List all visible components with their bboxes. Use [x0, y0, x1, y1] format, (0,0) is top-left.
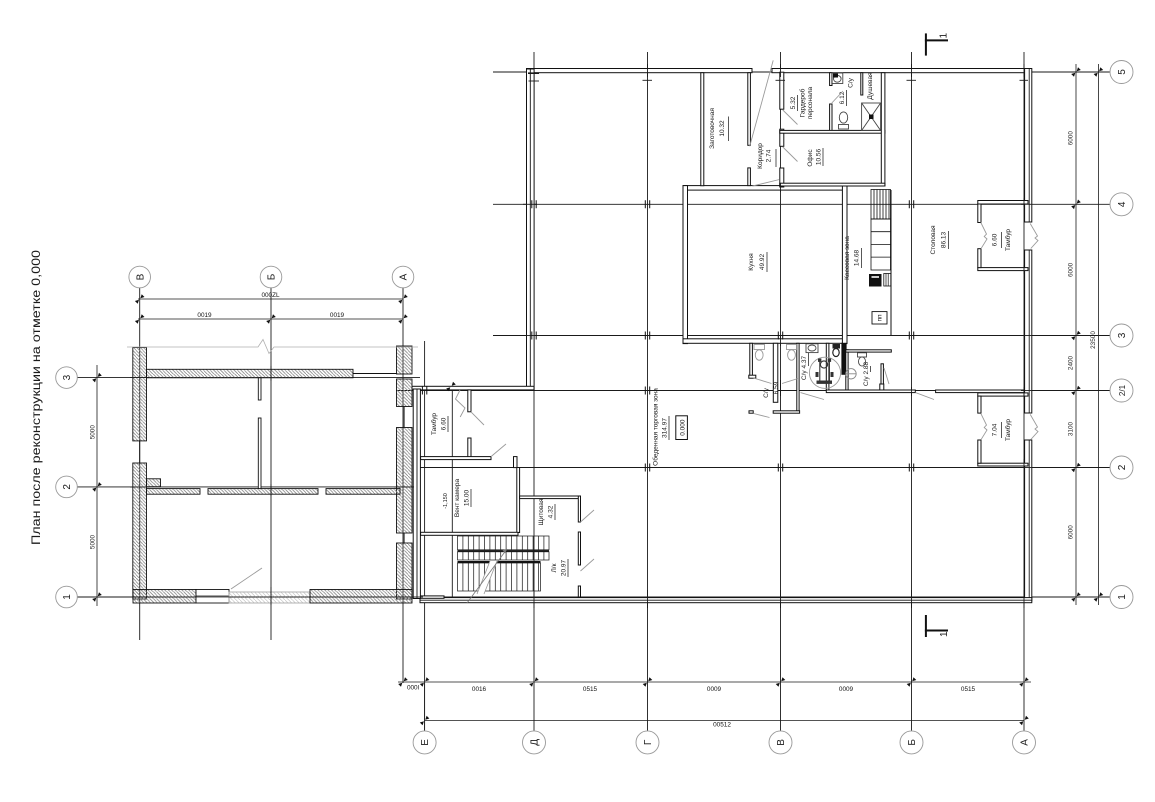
shower tray [862, 103, 881, 131]
right dim line 1 [1075, 64, 1077, 605]
stair east wall seg3 [578, 586, 580, 597]
svg-text:Вент камера: Вент камера [454, 479, 461, 518]
vent room north wall corner [514, 457, 518, 468]
svg-text:-1,150: -1,150 [443, 493, 449, 509]
svg-text:6000: 6000 [1068, 262, 1075, 277]
svg-text:Столовая: Столовая [930, 225, 937, 255]
stair flight upper b [458, 552, 550, 560]
wc bottom wall seg1 [749, 411, 753, 413]
tambur1 west wall seg2 [978, 249, 981, 268]
stair west wall crossing axis1 [414, 596, 423, 598]
svg-text:2: 2 [1117, 464, 1128, 470]
svg-text:6.59: 6.59 [773, 381, 780, 394]
svg-text:5000: 5000 [90, 425, 97, 440]
svg-text:2: 2 [62, 484, 73, 490]
svg-text:Тамбур: Тамбур [1004, 229, 1012, 251]
svg-text:6000: 6000 [1068, 525, 1075, 540]
left bldg axis V vertical [139, 288, 141, 640]
kitchen right wall [842, 186, 847, 344]
left bldg axis B vertical [270, 288, 272, 640]
svg-text:Е: Е [420, 739, 431, 746]
svg-text:4.32: 4.32 [548, 505, 555, 518]
svg-text:С/у: С/у [763, 387, 770, 398]
wc thick dark wall [842, 343, 846, 374]
stair flight upper [458, 536, 550, 550]
wall line x452 [451, 389, 453, 602]
svg-text:Коридор: Коридор [757, 143, 764, 169]
tambur2 north wall [978, 393, 1028, 396]
left bldg top bubbles [129, 266, 414, 288]
su288 north wall [846, 350, 892, 352]
wall pier axis2 [147, 479, 161, 487]
left building hatched walls [133, 346, 412, 603]
wc wall 4 [826, 343, 829, 390]
svg-text:Кухня: Кухня [748, 253, 755, 271]
svg-text:В: В [135, 273, 146, 280]
entry door long leaf [750, 60, 774, 146]
mid wall seg3 [326, 489, 400, 495]
svg-text:Заготовочная: Заготовочная [709, 108, 716, 149]
bottom wall seg1 [133, 590, 196, 604]
stair break band [477, 561, 497, 594]
stair flight lower [458, 563, 541, 591]
svg-text:Тамбур: Тамбур [430, 413, 438, 435]
svg-text:5000: 5000 [90, 534, 97, 549]
block east wall [881, 73, 885, 186]
axis V wall seg2 [780, 129, 784, 146]
right exterior wall seg2 [1025, 250, 1032, 413]
svg-text:6.60: 6.60 [441, 417, 448, 430]
left exterior wall crossings [523, 203, 537, 205]
stair block west wall [413, 389, 420, 599]
svg-text:Щитовая: Щитовая [538, 498, 545, 525]
wall 2/1 hook [880, 384, 884, 390]
axis 3 horizontal [493, 335, 1110, 337]
bottom wall small step [415, 596, 444, 598]
left bldg axis A vertical [402, 288, 404, 683]
svg-text:А: А [399, 273, 410, 280]
right dim texts [1068, 131, 1098, 540]
svg-text:С/у: С/у [848, 77, 855, 88]
svg-text:Б: Б [907, 739, 918, 746]
toilet 2 [787, 345, 797, 350]
garderob divider seg2 [830, 104, 832, 133]
zagotovochnaya east partition upper [748, 73, 751, 146]
wall left lower [133, 463, 147, 599]
svg-text:Л/к: Л/к [551, 563, 558, 572]
stair up arrow [467, 549, 507, 603]
top wall west part [527, 69, 753, 73]
kitchen left wall [683, 186, 688, 344]
left bldg top dim line spans [138, 318, 403, 320]
axis 1 horizontal [77, 596, 1110, 598]
top wall east part [772, 69, 1030, 73]
dush west wall [861, 73, 863, 95]
axis A vertical [1023, 52, 1025, 731]
svg-text:А: А [1020, 739, 1031, 746]
cash box striped [884, 274, 891, 287]
svg-text:0515: 0515 [961, 686, 976, 693]
window glazing left wall [139, 441, 141, 463]
axis 4 horizontal [493, 203, 1110, 205]
2/1 wall crossings [911, 387, 913, 396]
grid stubs over walls [130, 64, 1032, 608]
svg-text:6.12: 6.12 [839, 91, 846, 104]
zagotovochnaya east partition lower [748, 168, 751, 186]
ticks bottom dim2 [420, 716, 430, 726]
tambur1 north wall [978, 201, 1028, 205]
bottom wall seg2 [310, 590, 412, 604]
svg-text:В: В [776, 739, 787, 746]
tambur1 south wall [978, 268, 1028, 271]
serving counter banded [871, 219, 891, 270]
right exterior wall seg1 [1025, 69, 1032, 223]
bottom dim line 2 overall [425, 720, 1024, 722]
break line left bldg [127, 340, 418, 354]
axis E vertical [424, 341, 426, 731]
svg-text:0016: 0016 [472, 686, 487, 693]
svg-text:23500: 23500 [1090, 331, 1097, 349]
svg-text:3: 3 [62, 374, 73, 380]
kassa front line [890, 190, 892, 335]
schitovaya door [581, 510, 595, 522]
svg-text:0019: 0019 [197, 312, 212, 319]
wall 2/1 seg1 [826, 390, 915, 393]
garderob door [783, 110, 798, 125]
ofis bottom partition [780, 183, 885, 186]
svg-text:Кассовая зона: Кассовая зона [844, 236, 851, 280]
tambur-stair north wall [412, 386, 534, 390]
wc stall wall 2 [773, 343, 778, 402]
svg-text:3: 3 [1117, 332, 1128, 338]
dining door 2/1 [916, 393, 935, 400]
right dim line 2 [1097, 64, 1099, 605]
left bldg left bubbles [56, 367, 78, 608]
svg-text:пп: пп [877, 314, 884, 322]
tambur2 break zigzag [981, 413, 987, 439]
mid wall seg1 [147, 489, 201, 495]
wall right seg4 [397, 543, 413, 599]
tambur1 west wall seg1 [978, 204, 981, 223]
svg-text:20.97: 20.97 [561, 559, 568, 576]
svg-text:2.74: 2.74 [766, 149, 773, 162]
window glazing right wall [403, 407, 405, 428]
interior partition upper [258, 378, 261, 400]
svg-text:6000: 6000 [1068, 131, 1075, 146]
tambur2 south wall [978, 463, 1028, 466]
corridor-kitchen door leaf [752, 180, 779, 187]
washbasin garderob block [832, 73, 843, 84]
svg-text:4: 4 [1117, 201, 1128, 207]
axis D vertical [533, 52, 535, 731]
su612 door [832, 91, 843, 103]
left bldg axis 2 horizontal [77, 486, 420, 488]
svg-text:Б: Б [267, 273, 278, 280]
svg-text:3100: 3100 [1068, 421, 1075, 436]
axis V wall seg3 [780, 168, 784, 187]
axis V vertical [780, 52, 782, 731]
bottom wall crossings [533, 590, 535, 608]
wall right seg3 [397, 428, 413, 534]
axis 2/1 horizontal [396, 390, 1110, 392]
svg-text:49.92: 49.92 [759, 253, 766, 270]
svg-text:0515: 0515 [583, 686, 598, 693]
svg-text:Г: Г [643, 739, 654, 745]
axis B vertical [911, 52, 913, 731]
bottom wall [420, 598, 1032, 603]
wc wall 5 [846, 350, 848, 391]
kitchen top wall [683, 186, 847, 191]
right building walls [412, 69, 1032, 603]
bottom dim line 1 [398, 681, 1031, 683]
svg-text:10.32: 10.32 [719, 120, 726, 137]
toilet su288 [858, 353, 867, 357]
svg-text:86.13: 86.13 [941, 231, 948, 248]
svg-text:Тамбур: Тамбур [1004, 419, 1012, 441]
stair top wall [421, 532, 518, 535]
drain circle [846, 369, 856, 379]
serving counter striped vertical [871, 190, 891, 271]
svg-text:1: 1 [939, 33, 950, 39]
garderob divider seg1 [830, 73, 832, 86]
svg-text:1: 1 [62, 594, 73, 600]
tambur east wall seg1 [468, 390, 471, 412]
left bldg side dim line [96, 365, 98, 606]
svg-text:00512: 00512 [713, 722, 731, 729]
stair lower flight dark edge [458, 561, 541, 563]
tambur east wall seg2 [468, 438, 471, 458]
wall left upper [133, 348, 147, 441]
axis 2 horizontal [413, 467, 1110, 469]
vent east wall [517, 468, 520, 533]
svg-text:314.97: 314.97 [662, 418, 669, 438]
svg-text:2400: 2400 [1068, 355, 1075, 370]
svg-text:Обеденная торговая зона: Обеденная торговая зона [652, 388, 660, 466]
wall top [147, 369, 354, 378]
stair east wall seg1 [578, 496, 580, 522]
svg-text:План после реконструкции на от: План после реконструкции на отметке 0,00… [31, 250, 43, 545]
section mark bottom [925, 615, 948, 637]
svg-text:14.68: 14.68 [854, 249, 861, 266]
lk door [581, 559, 595, 571]
top wall crossings [643, 79, 653, 81]
svg-text:6.60: 6.60 [992, 233, 999, 246]
svg-text:7.04: 7.04 [992, 423, 999, 436]
ticks bottom dim1 [398, 677, 408, 687]
svg-text:персонала: персонала [807, 86, 814, 119]
room labels rotated [430, 72, 1012, 577]
wc stall wall 1 [750, 343, 753, 376]
tick at tambour wall [446, 382, 456, 392]
window glazing top wall [353, 373, 397, 375]
left bldg wall crossings [130, 377, 149, 379]
wheelchair wc circle [809, 357, 840, 388]
svg-text:0009: 0009 [707, 686, 722, 693]
svg-text:0009: 0009 [839, 686, 854, 693]
svg-text:000ZL: 000ZL [261, 292, 280, 299]
left bldg bottom door swing [231, 568, 262, 589]
svg-text:5.32: 5.32 [790, 96, 797, 109]
svg-text:С/у 4.37: С/у 4.37 [801, 356, 808, 381]
vent door [491, 444, 506, 457]
washbasin su437 [806, 344, 818, 353]
bottom axis bubbles [413, 731, 1035, 754]
axis V wall seg1 [780, 72, 784, 109]
section mark top [925, 33, 948, 55]
ofis door [783, 147, 798, 162]
tambur wall crossings at A [1023, 198, 1025, 207]
svg-text:0.000: 0.000 [680, 419, 687, 436]
toilet wheelchair dark [833, 344, 841, 349]
su288 east wall [881, 364, 883, 387]
left exterior wall [527, 69, 535, 390]
right axis bubbles [1110, 61, 1133, 609]
PP box [872, 312, 887, 324]
wall right seg1 [397, 346, 413, 374]
mid wall seg2 [208, 489, 318, 495]
left bldg axis 3 horizontal [77, 377, 420, 379]
svg-text:2/1: 2/1 [1118, 384, 1127, 396]
wall 2/1 seg2 [936, 390, 1025, 393]
bottom wall door rect [196, 590, 229, 604]
wheelchair symbol [820, 361, 830, 382]
stairs [458, 536, 550, 591]
svg-text:10.56: 10.56 [816, 148, 823, 165]
wc bottom wall seg2 [773, 411, 799, 413]
kitchen bottom wall [683, 339, 847, 344]
left bldg top dim line overall [138, 298, 403, 300]
right exterior wall crossings [1021, 203, 1032, 205]
svg-text:5: 5 [1117, 69, 1128, 75]
tambur2 west wall seg1 [978, 396, 981, 413]
svg-text:Гардероб: Гардероб [799, 88, 807, 117]
svg-text:000l: 000l [407, 685, 419, 692]
cash desk dark box [869, 274, 882, 287]
bottom dim extension E [424, 683, 426, 731]
elevation box 0.000 [676, 416, 688, 440]
door swings gray [231, 60, 1038, 589]
svg-text:15.00: 15.00 [464, 489, 471, 506]
toilet 1 [754, 345, 765, 350]
axis G vertical [647, 52, 649, 731]
svg-text:1: 1 [1117, 594, 1128, 600]
svg-text:Офис: Офис [807, 149, 814, 167]
wc stall wall 3 [797, 343, 799, 411]
wc stall wall 1 foot [749, 375, 756, 378]
wall right seg2 [397, 379, 413, 407]
bottom wall light seg [229, 592, 310, 603]
toilet su612 [839, 112, 847, 123]
intersection double dashes [422, 200, 913, 471]
stair mid landing dark line [458, 550, 550, 552]
ofis top partition [780, 130, 885, 133]
axis 5 horizontal [493, 71, 1110, 73]
wc doors [754, 378, 772, 384]
svg-text:1: 1 [939, 631, 950, 637]
tambur1 break zigzag [981, 223, 987, 249]
svg-text:Душевая: Душевая [867, 72, 874, 100]
WALLS [127, 64, 1032, 608]
right exterior wall seg3 [1025, 440, 1032, 601]
vent room north wall [421, 457, 491, 460]
fixtures [754, 345, 797, 361]
zagotovochnaya west partition [701, 73, 704, 186]
shchitovaya north wall [520, 496, 579, 499]
tambur stair door [471, 412, 484, 425]
window glazing right wall 2 [403, 533, 405, 543]
tambur2 west wall seg2 [978, 440, 981, 463]
kitchen wall crossings [780, 183, 782, 192]
svg-text:Д: Д [530, 739, 541, 746]
stair east wall seg2 [578, 532, 580, 565]
svg-text:0019: 0019 [330, 312, 345, 319]
